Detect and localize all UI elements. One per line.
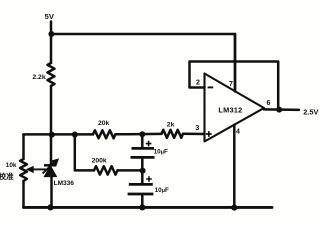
wire: top 5V rail <box>51 34 235 91</box>
svg-text:2.2k: 2.2k <box>32 74 45 81</box>
potentiometer R5 10k body <box>20 159 27 181</box>
capacitor C2 plus <box>146 176 152 182</box>
wire: 2k to pin 3 <box>183 133 205 136</box>
wire: pot branch upper <box>22 134 25 159</box>
capacitor C2 plates <box>128 184 154 194</box>
svg-text:10μF: 10μF <box>155 187 169 194</box>
svg-text:LM336: LM336 <box>54 180 75 187</box>
junction dot: output node <box>276 107 282 113</box>
wire: pot branch lower <box>22 181 25 207</box>
svg-text:2k: 2k <box>167 122 175 129</box>
wire: output <box>264 108 299 111</box>
wire: R1 to node A <box>50 86 53 134</box>
svg-text:校准: 校准 <box>0 171 14 181</box>
svg-text:4: 4 <box>236 128 240 135</box>
wire: feedback loop <box>190 62 279 110</box>
wire: op-amp supply pin 7 drop <box>234 34 237 91</box>
svg-text:20k: 20k <box>98 120 110 127</box>
wire: pin 4 to ground <box>233 125 236 208</box>
svg-text:3: 3 <box>195 125 199 132</box>
svg-text:200k: 200k <box>92 158 107 165</box>
svg-text:2.5V: 2.5V <box>303 107 318 116</box>
junction dot: ground / pin 4 <box>231 205 237 211</box>
op-amp U1 LM312 triangle <box>205 74 265 142</box>
svg-text:LM312: LM312 <box>218 106 242 115</box>
wire: cap C1 mid lead <box>141 158 144 184</box>
svg-text:2: 2 <box>196 80 200 87</box>
capacitor C1 plates <box>131 148 155 157</box>
svg-text:10μF: 10μF <box>154 148 168 155</box>
junction dot: node B <box>139 131 145 137</box>
wire: node B segment <box>116 133 162 136</box>
junction dot: 5V rail tap <box>48 31 54 37</box>
junction dot: ground / LM336 anode <box>47 204 53 210</box>
junction dot: node C <box>140 168 146 174</box>
resistor R4 2k body <box>162 130 184 138</box>
svg-text:5V: 5V <box>45 12 55 21</box>
junction dot: ground / C2 <box>139 204 145 210</box>
wire: LM336 cathode lead <box>50 134 53 165</box>
resistor R2 20k body <box>93 130 116 138</box>
op-amp plus sign <box>206 131 212 137</box>
wire: LM336 anode lead <box>50 177 53 208</box>
svg-text:10k: 10k <box>6 162 17 169</box>
svg-text:7: 7 <box>229 81 233 88</box>
wire: cap C2 lower lead <box>141 194 144 207</box>
wire: node B cap lead <box>141 134 144 148</box>
wire: 5V stub <box>50 22 53 64</box>
pot wiper arrow <box>26 166 46 172</box>
resistor R1 2.2k body <box>48 63 55 86</box>
svg-text:6: 6 <box>267 100 271 107</box>
wire: node A horizontal line <box>24 133 94 136</box>
wire: 200k to node C <box>118 169 143 172</box>
op-amp minus sign <box>208 86 214 88</box>
junction dot: node A / 200k branch <box>72 132 78 138</box>
resistor R3 200k body <box>94 166 118 174</box>
zener D1 adjust arrow <box>43 159 59 174</box>
zener D1 LM336 cathode bar <box>44 164 56 167</box>
zener D1 LM336 body <box>44 166 56 177</box>
capacitor C1 plus <box>146 141 152 147</box>
wire: 200k branch vertical <box>75 134 94 170</box>
wire: ground rail <box>24 206 273 209</box>
junction dot: node A / LM336 <box>49 132 55 138</box>
